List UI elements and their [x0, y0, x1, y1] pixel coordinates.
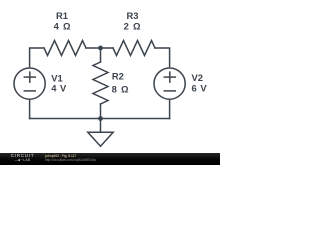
wire node A to R2: [100, 48, 102, 62]
node A: [98, 46, 103, 51]
voltage source V1: [14, 68, 45, 99]
svg-text:V2: V2: [192, 72, 203, 83]
svg-text:4 V: 4 V: [51, 83, 67, 94]
svg-text:8 Ω: 8 Ω: [112, 83, 130, 94]
resistor R2: [93, 62, 108, 104]
wire top-left segment: [30, 48, 44, 67]
ground: [100, 119, 102, 133]
wire R3 to V2 top: [155, 48, 170, 67]
svg-text:R3: R3: [127, 10, 139, 21]
wire V2 bottom drop: [169, 101, 171, 119]
watermark bar: [0, 153, 220, 165]
CircuitLab logo: [6, 154, 39, 162]
wire R2 to node B: [100, 104, 102, 119]
svg-text:6 V: 6 V: [192, 83, 208, 94]
wire V1 bottom drop: [29, 101, 31, 119]
wire bottom rail: [30, 118, 170, 120]
svg-text:R2: R2: [112, 71, 124, 82]
resistor R1: [44, 41, 86, 56]
resistor R3: [113, 41, 155, 56]
node B: [98, 116, 103, 121]
svg-text:2 Ω: 2 Ω: [124, 20, 142, 31]
voltage source V2: [154, 68, 185, 99]
svg-text:4 Ω: 4 Ω: [54, 20, 72, 31]
svg-text:R1: R1: [56, 10, 68, 21]
wire R1 to node A: [86, 47, 113, 49]
credit text: [45, 155, 96, 163]
